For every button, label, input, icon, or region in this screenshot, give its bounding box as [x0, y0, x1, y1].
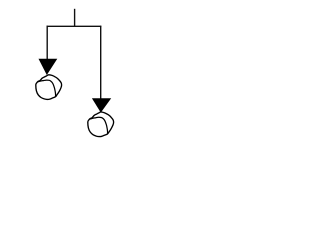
right symbol: drum outline — [88, 112, 114, 137]
right symbol: drum face rim edge — [89, 117, 107, 134]
wire: horizontal rail — [47, 25, 102, 27]
wire: top stub — [74, 9, 76, 27]
wire: right drop — [100, 26, 102, 99]
wire: left drop — [46, 26, 48, 60]
arrowhead: left arrow — [39, 59, 58, 75]
left symbol: drum outline — [36, 75, 62, 100]
left symbol: drum face rim edge — [37, 80, 55, 97]
arrowhead: right arrow — [92, 98, 111, 112]
